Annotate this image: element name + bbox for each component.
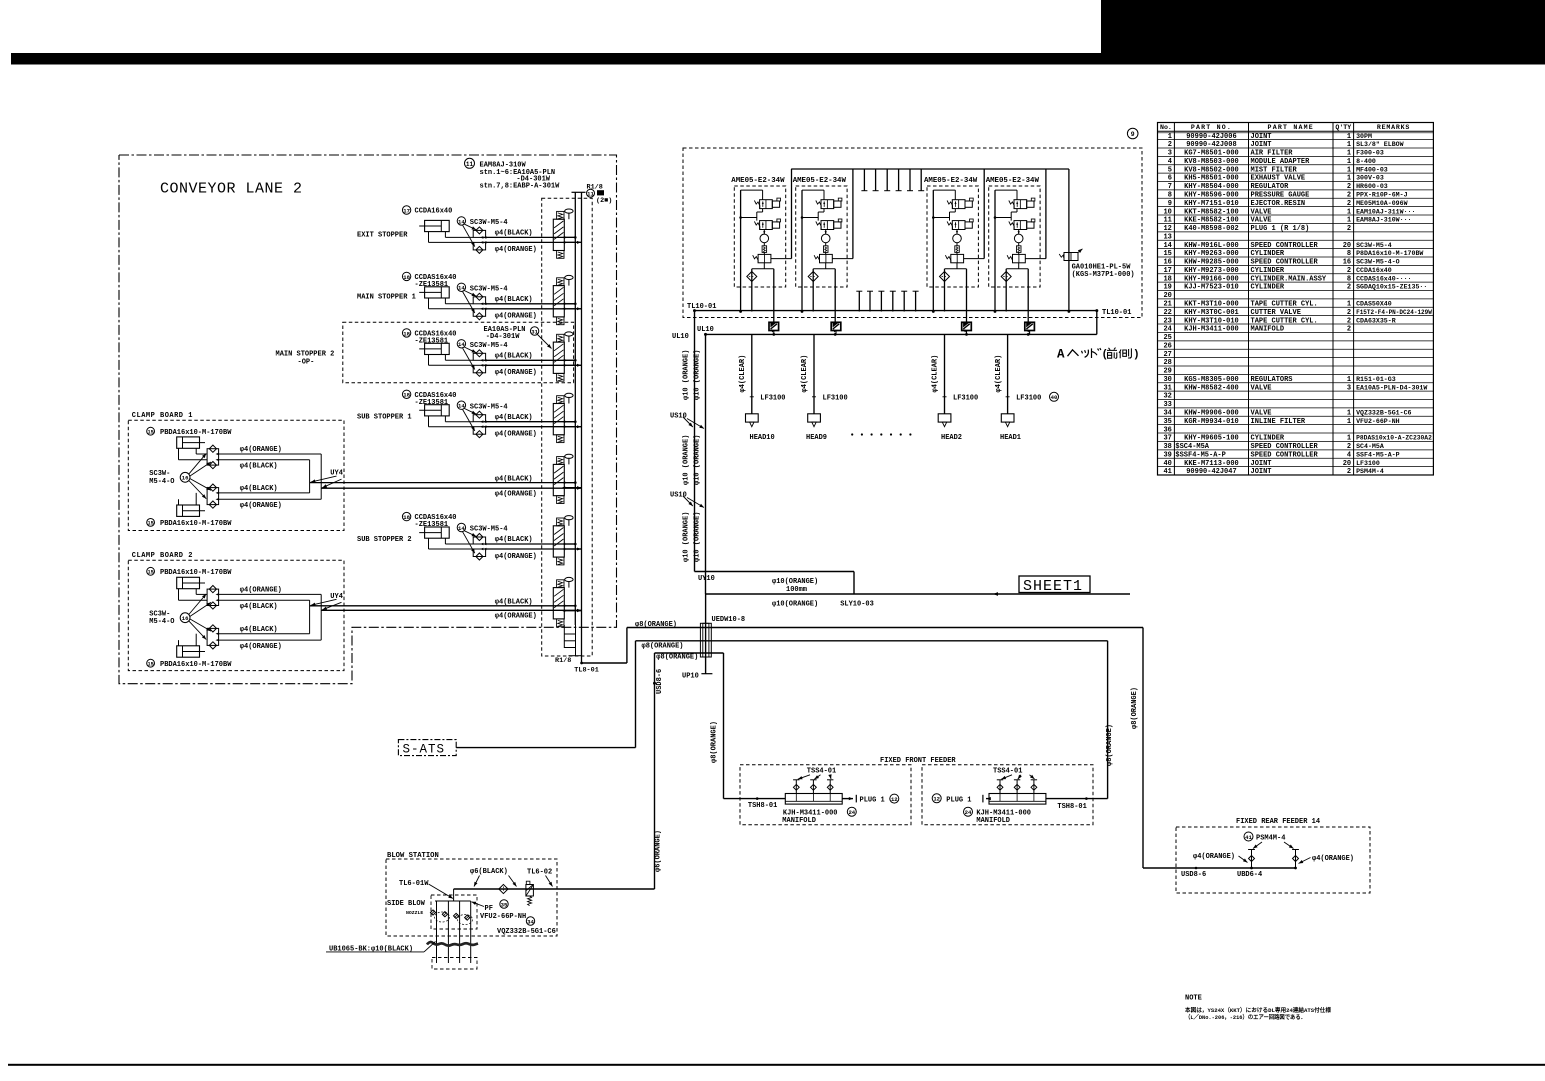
svg-text:UY4: UY4: [330, 593, 343, 601]
svg-text:φ10(ORANGE): φ10(ORANGE): [772, 601, 818, 609]
svg-text:PBDA16x10-M-170BW: PBDA16x10-M-170BW: [160, 569, 232, 577]
svg-text:AME05-E2-34W: AME05-E2-34W: [924, 177, 978, 185]
svg-text:TSS4-01: TSS4-01: [807, 768, 836, 776]
svg-text:100mm: 100mm: [786, 586, 807, 594]
svg-text:φ8(ORANGE): φ8(ORANGE): [1106, 724, 1114, 766]
svg-text:CCDA16x40: CCDA16x40: [415, 208, 453, 216]
svg-text:UEDW10-8: UEDW10-8: [712, 616, 746, 624]
svg-text:PRESSURE GAUGE: PRESSURE GAUGE: [1251, 191, 1310, 199]
svg-text:12: 12: [1163, 225, 1171, 233]
svg-text:φ8(ORANGE): φ8(ORANGE): [711, 721, 719, 763]
svg-text:-ZE13581: -ZE13581: [415, 399, 449, 407]
svg-text:-ZE13581: -ZE13581: [415, 281, 449, 289]
svg-text:φ4(ORANGE): φ4(ORANGE): [495, 313, 537, 321]
svg-text:ME05M10A-096W: ME05M10A-096W: [1356, 200, 1407, 207]
svg-text:F15T2-F4-PN-DC24-129W: F15T2-F4-PN-DC24-129W: [1356, 309, 1432, 316]
svg-text:φ8(ORANGE): φ8(ORANGE): [1131, 687, 1139, 729]
svg-text:MIST FILTER: MIST FILTER: [1251, 166, 1298, 174]
svg-text:KKT-M3T10-000: KKT-M3T10-000: [1184, 301, 1239, 309]
svg-text:20: 20: [1163, 292, 1171, 300]
svg-text:-ZE13581: -ZE13581: [415, 521, 449, 529]
svg-text:(2■): (2■): [596, 197, 612, 205]
svg-text:1: 1: [1168, 133, 1172, 141]
svg-text:16: 16: [1163, 259, 1171, 267]
svg-text:KH5-M8501-000: KH5-M8501-000: [1184, 175, 1239, 183]
svg-text:5: 5: [1168, 166, 1172, 174]
svg-text:SPEED CONTROLLER: SPEED CONTROLLER: [1251, 259, 1319, 267]
svg-text:2: 2: [1347, 191, 1351, 199]
svg-text:JOINT: JOINT: [1251, 468, 1272, 476]
svg-text:KKT-M8582-100: KKT-M8582-100: [1184, 208, 1239, 216]
svg-text:PBDA16x10-M-170BW: PBDA16x10-M-170BW: [160, 520, 232, 528]
svg-text:MANIFOLD: MANIFOLD: [782, 817, 816, 825]
svg-text:PSM4M-4: PSM4M-4: [1256, 835, 1285, 843]
svg-text:φ4(ORANGE): φ4(ORANGE): [495, 246, 537, 254]
svg-text:AME05-E2-34W: AME05-E2-34W: [986, 177, 1040, 185]
svg-text:1: 1: [1347, 410, 1351, 418]
svg-text:34: 34: [527, 918, 534, 925]
svg-text:18: 18: [1163, 275, 1171, 283]
svg-text:US10: US10: [670, 413, 687, 421]
svg-text:φ4(BLACK): φ4(BLACK): [495, 230, 533, 238]
svg-text:VQZ332B-5G1-C6: VQZ332B-5G1-C6: [497, 928, 556, 936]
svg-text:14: 14: [1163, 242, 1171, 250]
svg-text:16: 16: [182, 475, 189, 482]
svg-text:KG7-M8501-000: KG7-M8501-000: [1184, 150, 1239, 158]
svg-text:KHW-M9285-000: KHW-M9285-000: [1184, 259, 1239, 267]
svg-text:41: 41: [1245, 834, 1252, 841]
svg-text:φ4(ORANGE): φ4(ORANGE): [1312, 855, 1354, 863]
svg-text:NOZZLE: NOZZLE: [406, 910, 423, 916]
svg-text:φ4(BLACK): φ4(BLACK): [240, 626, 278, 634]
svg-text:2: 2: [1347, 326, 1351, 334]
svg-text:20: 20: [1343, 460, 1351, 468]
svg-text:AME05-E2-34W: AME05-E2-34W: [793, 177, 847, 185]
svg-text:KHY-M8504-000: KHY-M8504-000: [1184, 183, 1239, 191]
svg-text:φ4(BLACK): φ4(BLACK): [495, 536, 533, 544]
svg-text:φ10 (ORANGE): φ10 (ORANGE): [693, 350, 701, 400]
svg-text:35: 35: [1163, 418, 1171, 426]
svg-text:PLUG 1 (R 1/8): PLUG 1 (R 1/8): [1251, 225, 1310, 233]
svg-text:USD8-6: USD8-6: [656, 669, 664, 694]
svg-text:(KGS-M37P1-000): (KGS-M37P1-000): [1072, 271, 1135, 279]
svg-text:KKE-M8582-100: KKE-M8582-100: [1184, 217, 1239, 225]
svg-text:VALVE: VALVE: [1251, 217, 1272, 225]
svg-text:-OP-: -OP-: [298, 359, 315, 367]
svg-text:（L／DNo.-206，-216）のエアー回路図である．: （L／DNo.-206，-216）のエアー回路図である．: [1185, 1013, 1306, 1021]
svg-text:KHY-M9605-100: KHY-M9605-100: [1184, 435, 1239, 443]
svg-text:2: 2: [1347, 200, 1351, 208]
svg-text:φ4(BLACK): φ4(BLACK): [240, 603, 278, 611]
svg-text:SGDAQ10x15-ZE135··: SGDAQ10x15-ZE135··: [1356, 284, 1427, 291]
svg-text:31: 31: [1163, 384, 1171, 392]
svg-text:KHY-M9263-000: KHY-M9263-000: [1184, 250, 1239, 258]
svg-text:PART NAME: PART NAME: [1268, 124, 1314, 131]
svg-text:φ8(ORANGE): φ8(ORANGE): [635, 621, 677, 629]
svg-text:FIXED FRONT FEEDER: FIXED FRONT FEEDER: [880, 757, 956, 765]
svg-text:CDA63X35-R: CDA63X35-R: [1356, 317, 1396, 324]
svg-text:No.: No.: [1160, 124, 1172, 131]
svg-text:MF400-03: MF400-03: [1356, 166, 1388, 173]
svg-text:-ZE13581: -ZE13581: [415, 337, 449, 345]
svg-text:2: 2: [1168, 141, 1172, 149]
svg-text:本図は，YS24X（KKT）におけるDL専用24連結ATS付: 本図は，YS24X（KKT）におけるDL専用24連結ATS付仕様: [1184, 1006, 1331, 1014]
svg-text:SIDE BLOW: SIDE BLOW: [387, 900, 426, 908]
svg-text:2: 2: [1347, 317, 1351, 325]
svg-text:1: 1: [1347, 418, 1351, 426]
svg-text:φ10 (ORANGE): φ10 (ORANGE): [682, 435, 690, 485]
svg-text:2: 2: [1347, 468, 1351, 476]
svg-text:): ): [1133, 349, 1140, 361]
svg-text:TL6-02: TL6-02: [527, 869, 552, 877]
svg-text:SSF4-M5-A-P: SSF4-M5-A-P: [1356, 451, 1400, 458]
svg-text:9: 9: [1131, 131, 1135, 138]
svg-text:UL10: UL10: [697, 326, 714, 334]
svg-text:φ4(BLACK): φ4(BLACK): [240, 485, 278, 493]
svg-text:CUTTER VALVE: CUTTER VALVE: [1251, 309, 1301, 317]
svg-text:SC3W-M5-4-O: SC3W-M5-4-O: [1356, 259, 1400, 266]
svg-text:φ10 (ORANGE): φ10 (ORANGE): [682, 512, 690, 562]
svg-text:38: 38: [1163, 443, 1171, 451]
svg-text:SC3W-M5-4: SC3W-M5-4: [1356, 242, 1392, 249]
svg-text:KHY-M9273-000: KHY-M9273-000: [1184, 267, 1239, 275]
svg-text:31: 31: [531, 328, 538, 335]
svg-text:$SC4-M5A: $SC4-M5A: [1175, 443, 1209, 451]
svg-text:8: 8: [1347, 275, 1351, 283]
svg-text:4: 4: [1168, 158, 1172, 166]
svg-text:MAIN STOPPER 1: MAIN STOPPER 1: [357, 294, 416, 302]
svg-text:18: 18: [403, 274, 410, 281]
svg-text:14: 14: [458, 341, 465, 348]
svg-text:S-ATS: S-ATS: [403, 742, 446, 756]
svg-text:CYLINDER: CYLINDER: [1251, 267, 1285, 275]
svg-text:10: 10: [1163, 208, 1171, 216]
svg-text:2: 2: [1347, 183, 1351, 191]
svg-text:φ4(ORANGE): φ4(ORANGE): [240, 502, 282, 510]
svg-text:HEAD1: HEAD1: [1000, 434, 1021, 442]
svg-text:P8DA16x10-M-170BW: P8DA16x10-M-170BW: [1356, 250, 1423, 257]
svg-text:SC3W-M5-4: SC3W-M5-4: [470, 285, 508, 293]
svg-text:SLY10-03: SLY10-03: [840, 601, 874, 609]
svg-text:φ4(BLACK): φ4(BLACK): [495, 296, 533, 304]
svg-text:M5-4-O: M5-4-O: [149, 478, 174, 486]
svg-text:1: 1: [1347, 141, 1351, 149]
svg-text:SHEET1: SHEET1: [1023, 578, 1083, 595]
svg-text:φ4(ORANGE): φ4(ORANGE): [495, 553, 537, 561]
svg-text:14: 14: [458, 403, 465, 410]
svg-text:φ4(ORANGE): φ4(ORANGE): [240, 587, 282, 595]
svg-text:VFU2-66P-NH: VFU2-66P-NH: [480, 913, 526, 921]
svg-text:CYLINDER.MAIN.ASSY: CYLINDER.MAIN.ASSY: [1251, 275, 1327, 283]
svg-text:300V-03: 300V-03: [1356, 175, 1384, 182]
svg-text:15: 15: [147, 521, 153, 527]
svg-text:CYLINDER: CYLINDER: [1251, 284, 1285, 292]
svg-text:25: 25: [1163, 334, 1171, 342]
svg-text:14: 14: [458, 525, 465, 532]
svg-text:14: 14: [458, 285, 465, 292]
svg-text:CLAMP BOARD 2: CLAMP BOARD 2: [132, 552, 193, 560]
svg-text:PLUG 1: PLUG 1: [946, 796, 971, 804]
svg-text:SC3W-M5-4: SC3W-M5-4: [470, 526, 508, 534]
svg-text:HEAD2: HEAD2: [941, 434, 962, 442]
svg-text:SPEED CONTROLLER: SPEED CONTROLLER: [1251, 451, 1319, 459]
svg-text:φ4(ORANGE): φ4(ORANGE): [495, 613, 537, 621]
svg-text:stn.7,8:EABP-A-301W: stn.7,8:EABP-A-301W: [480, 182, 561, 190]
svg-text:φ10 (ORANGE): φ10 (ORANGE): [682, 350, 690, 400]
svg-text:39: 39: [1163, 451, 1171, 459]
svg-text:KV8-M8502-000: KV8-M8502-000: [1184, 166, 1239, 174]
svg-text:REGULATORS: REGULATORS: [1251, 376, 1293, 384]
svg-text:R1/8: R1/8: [555, 657, 571, 665]
svg-text:UB1065-BK:φ10(BLACK): UB1065-BK:φ10(BLACK): [329, 946, 413, 954]
svg-text:φ4(BLACK): φ4(BLACK): [495, 352, 533, 360]
svg-text:KHY-M3T10-010: KHY-M3T10-010: [1184, 317, 1239, 325]
svg-text:TSS4-01: TSS4-01: [993, 768, 1022, 776]
svg-text:KV8-M8503-000: KV8-M8503-000: [1184, 158, 1239, 166]
svg-text:12: 12: [891, 796, 898, 803]
svg-text:EXHAUST VALVE: EXHAUST VALVE: [1251, 175, 1306, 183]
svg-text:TL10-01: TL10-01: [1102, 309, 1131, 317]
svg-text:90990-42J006: 90990-42J006: [1186, 133, 1236, 141]
svg-text:φ4(ORANGE): φ4(ORANGE): [495, 431, 537, 439]
svg-text:MAIN STOPPER 2: MAIN STOPPER 2: [276, 351, 335, 359]
svg-text:1: 1: [1347, 208, 1351, 216]
svg-text:LF3100: LF3100: [823, 395, 848, 403]
svg-text:1: 1: [1347, 133, 1351, 141]
svg-text:USD8-6: USD8-6: [1181, 871, 1206, 879]
svg-text:PF: PF: [485, 905, 493, 913]
svg-text:SUB STOPPER 2: SUB STOPPER 2: [357, 536, 412, 544]
svg-text:24: 24: [965, 809, 972, 816]
svg-text:13: 13: [1163, 233, 1171, 241]
svg-text:KKE-M7113-000: KKE-M7113-000: [1184, 460, 1239, 468]
svg-text:PBDA16x10-M-170BW: PBDA16x10-M-170BW: [160, 661, 232, 669]
svg-text:UY4: UY4: [330, 470, 343, 478]
svg-text:EAM10AJ-311W···: EAM10AJ-311W···: [1356, 208, 1415, 215]
svg-text:φ4(CLEAR): φ4(CLEAR): [801, 355, 809, 393]
svg-text:40: 40: [1163, 460, 1171, 468]
svg-text:JOINT: JOINT: [1251, 141, 1272, 149]
svg-text:26: 26: [1163, 342, 1171, 350]
svg-text:φ4(ORANGE): φ4(ORANGE): [240, 446, 282, 454]
svg-text:35: 35: [501, 901, 508, 908]
svg-text:SPEED CONTROLLER: SPEED CONTROLLER: [1251, 242, 1319, 250]
svg-text:TL8-01: TL8-01: [574, 667, 598, 675]
svg-text:φ4(BLACK): φ4(BLACK): [495, 599, 533, 607]
svg-text:EXIT STOPPER: EXIT STOPPER: [357, 231, 408, 239]
svg-text:φ8(ORANGE): φ8(ORANGE): [642, 643, 684, 651]
svg-text:Q'TY: Q'TY: [1335, 124, 1351, 131]
svg-text:φ4(BLACK): φ4(BLACK): [495, 475, 533, 483]
svg-text:8: 8: [1347, 250, 1351, 258]
svg-text:2: 2: [1347, 267, 1351, 275]
svg-text:20: 20: [1343, 242, 1351, 250]
svg-text:LF3100: LF3100: [1356, 460, 1380, 467]
svg-text:φ6(ORANGE): φ6(ORANGE): [655, 830, 663, 872]
svg-text:SC3W-M5-4: SC3W-M5-4: [470, 219, 508, 227]
svg-text:VFU2-66P-NH: VFU2-66P-NH: [1356, 418, 1400, 425]
svg-text:$SSF4-M5-A-P: $SSF4-M5-A-P: [1175, 451, 1225, 459]
svg-text:φ4(CLEAR): φ4(CLEAR): [739, 355, 747, 393]
svg-text:JOINT: JOINT: [1251, 133, 1272, 141]
svg-text:φ6(BLACK): φ6(BLACK): [470, 868, 508, 876]
svg-text:15: 15: [1163, 250, 1171, 258]
svg-text:32: 32: [1163, 393, 1171, 401]
svg-text:A: A: [1057, 348, 1065, 362]
svg-text:1: 1: [1347, 175, 1351, 183]
svg-text:19: 19: [1163, 284, 1171, 292]
svg-text:36: 36: [1163, 426, 1171, 434]
svg-text:1: 1: [1347, 435, 1351, 443]
svg-text:24: 24: [848, 809, 855, 816]
svg-text:40: 40: [1051, 394, 1058, 401]
svg-text:6: 6: [1168, 175, 1172, 183]
svg-text:2: 2: [1347, 309, 1351, 317]
svg-text:KHY-M9166-000: KHY-M9166-000: [1184, 275, 1239, 283]
svg-text:φ4(ORANGE): φ4(ORANGE): [1193, 853, 1235, 861]
svg-text:LF3100: LF3100: [760, 395, 785, 403]
svg-text:30: 30: [1163, 376, 1171, 384]
svg-text:LF3100: LF3100: [953, 395, 978, 403]
svg-text:41: 41: [1163, 468, 1171, 476]
svg-text:1: 1: [1347, 217, 1351, 225]
svg-text:CCDAS16x40-···: CCDAS16x40-···: [1356, 275, 1411, 282]
svg-text:17: 17: [1163, 267, 1171, 275]
svg-text:23: 23: [1163, 317, 1171, 325]
svg-text:16: 16: [182, 615, 189, 622]
svg-text:21: 21: [1163, 301, 1171, 309]
svg-text:P8DAS10x10-A-ZC230A2: P8DAS10x10-A-ZC230A2: [1356, 435, 1432, 442]
svg-text:17: 17: [403, 207, 410, 214]
svg-text:CYLINDER: CYLINDER: [1251, 250, 1285, 258]
svg-text:12: 12: [933, 796, 940, 803]
svg-text:M5-4-O: M5-4-O: [149, 618, 174, 626]
svg-text:KHY-M3T0C-001: KHY-M3T0C-001: [1184, 309, 1239, 317]
svg-text:KHW-M8582-400: KHW-M8582-400: [1184, 384, 1239, 392]
svg-text:2: 2: [1347, 284, 1351, 292]
svg-text:REMARKS: REMARKS: [1377, 124, 1410, 131]
svg-text:MANIFOLD: MANIFOLD: [976, 817, 1010, 825]
svg-text:REGULATOR: REGULATOR: [1251, 183, 1290, 191]
svg-text:KJH-M3411-000: KJH-M3411-000: [1184, 326, 1239, 334]
svg-text:JOINT: JOINT: [1251, 460, 1272, 468]
svg-text:TL10-01: TL10-01: [687, 303, 716, 311]
svg-text:HR600-03: HR600-03: [1356, 183, 1388, 190]
svg-text:9: 9: [1168, 200, 1172, 208]
svg-text:AIR FILTER: AIR FILTER: [1251, 150, 1294, 158]
svg-text:PBDA16x10-M-170BW: PBDA16x10-M-170BW: [160, 429, 232, 437]
svg-text:SPEED CONTROLLER: SPEED CONTROLLER: [1251, 443, 1319, 451]
svg-text:29: 29: [1163, 368, 1171, 376]
svg-text:27: 27: [1163, 351, 1171, 359]
svg-text:18: 18: [403, 392, 410, 399]
svg-text:VALVE: VALVE: [1251, 410, 1272, 418]
svg-text:TSH8-01: TSH8-01: [1057, 803, 1086, 811]
svg-text:37: 37: [1163, 435, 1171, 443]
svg-text:VALVE: VALVE: [1251, 384, 1272, 392]
svg-text:VQZ332B-5G1-C6: VQZ332B-5G1-C6: [1356, 410, 1411, 417]
svg-text:1: 1: [1347, 301, 1351, 309]
svg-text:11: 11: [587, 191, 594, 198]
svg-text:SL3/8" ELBOW: SL3/8" ELBOW: [1356, 141, 1404, 148]
svg-text:KHW-M9906-000: KHW-M9906-000: [1184, 410, 1239, 418]
svg-text:φ4(BLACK): φ4(BLACK): [495, 414, 533, 422]
svg-text:TAPE CUTTER CYL.: TAPE CUTTER CYL.: [1251, 317, 1318, 325]
svg-text:3: 3: [1168, 150, 1172, 158]
svg-text:EA10A5-PLN-D4-301W: EA10A5-PLN-D4-301W: [1356, 384, 1427, 391]
svg-text:UBD6-4: UBD6-4: [1237, 871, 1262, 879]
svg-text:18: 18: [403, 514, 410, 521]
svg-text:4: 4: [1347, 451, 1351, 459]
svg-text:90990-42J047: 90990-42J047: [1186, 468, 1236, 476]
svg-text:PLUG 1: PLUG 1: [860, 796, 885, 804]
svg-text:HEAD10: HEAD10: [750, 434, 775, 442]
svg-text:φ4(ORANGE): φ4(ORANGE): [495, 369, 537, 377]
svg-text:HEAD9: HEAD9: [806, 434, 827, 442]
svg-text:PSM4M-4: PSM4M-4: [1356, 468, 1384, 475]
svg-text:1: 1: [1347, 166, 1351, 174]
svg-text:KGR-M9934-010: KGR-M9934-010: [1184, 418, 1239, 426]
svg-text:TSH8-01: TSH8-01: [748, 802, 777, 810]
svg-text:15: 15: [147, 570, 153, 576]
svg-text:SC4-M5A: SC4-M5A: [1356, 443, 1384, 450]
svg-text:φ4(BLACK): φ4(BLACK): [240, 463, 278, 471]
svg-text:φ4(ORANGE): φ4(ORANGE): [495, 490, 537, 498]
svg-text:MODULE ADAPTER: MODULE ADAPTER: [1251, 158, 1311, 166]
svg-text:UP10: UP10: [682, 672, 699, 680]
svg-text:11: 11: [466, 161, 474, 168]
svg-text:28: 28: [1163, 359, 1171, 367]
svg-text:1: 1: [1347, 150, 1351, 158]
svg-text:PART NO.: PART NO.: [1191, 124, 1232, 131]
svg-text:φ10 (ORANGE): φ10 (ORANGE): [693, 435, 701, 485]
svg-text:NOTE: NOTE: [1185, 995, 1202, 1003]
svg-text:CYLINDER: CYLINDER: [1251, 435, 1285, 443]
svg-text:1: 1: [1347, 376, 1351, 384]
svg-text:φ4(ORANGE): φ4(ORANGE): [240, 643, 282, 651]
svg-text:INLINE FILTER: INLINE FILTER: [1251, 418, 1306, 426]
svg-text:90990-42J008: 90990-42J008: [1186, 141, 1236, 149]
svg-text:7: 7: [1168, 183, 1172, 191]
svg-text:15: 15: [147, 662, 153, 668]
svg-text:16: 16: [1343, 259, 1351, 267]
svg-text:KGS-M8305-000: KGS-M8305-000: [1184, 376, 1239, 384]
svg-text:φ10(ORANGE): φ10(ORANGE): [772, 578, 818, 586]
svg-text:MANIFOLD: MANIFOLD: [1251, 326, 1285, 334]
svg-text:US10: US10: [670, 492, 687, 500]
svg-text:18: 18: [403, 330, 410, 337]
svg-text:EJECTOR.RESIN: EJECTOR.RESIN: [1251, 200, 1306, 208]
svg-text:UL10: UL10: [672, 333, 689, 341]
svg-text:1: 1: [1347, 158, 1351, 166]
svg-text:24: 24: [1163, 326, 1171, 334]
svg-text:CONVEYOR LANE 2: CONVEYOR LANE 2: [160, 180, 303, 197]
svg-text:2: 2: [1347, 443, 1351, 451]
svg-text:CCDA16x40: CCDA16x40: [1356, 267, 1392, 274]
svg-text:φ10 (ORANGE): φ10 (ORANGE): [693, 512, 701, 562]
svg-text:34: 34: [1163, 410, 1171, 418]
svg-text:SC3W-M5-4: SC3W-M5-4: [470, 342, 508, 350]
svg-text:22: 22: [1163, 309, 1171, 317]
svg-text:R151-01-G3: R151-01-G3: [1356, 376, 1396, 383]
svg-text:UY10: UY10: [698, 575, 715, 583]
svg-text:KHY-M8596-000: KHY-M8596-000: [1184, 191, 1239, 199]
svg-text:14: 14: [458, 218, 465, 225]
svg-text:2: 2: [1347, 225, 1351, 233]
svg-text:30PM: 30PM: [1356, 133, 1372, 140]
svg-text:LF3100: LF3100: [1016, 395, 1041, 403]
svg-text:VALVE: VALVE: [1251, 208, 1272, 216]
